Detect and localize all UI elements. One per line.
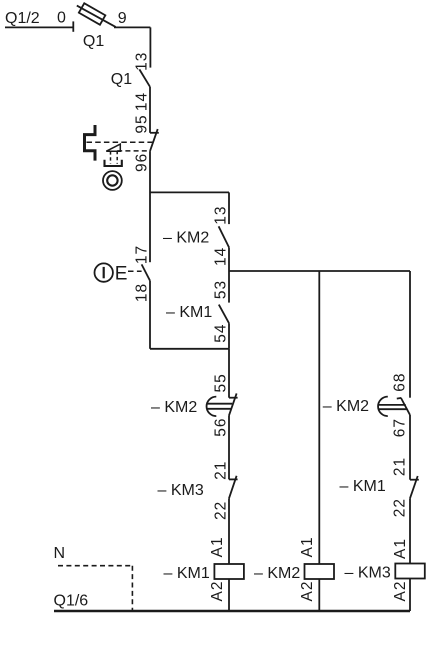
svg-text:95: 95	[134, 114, 151, 133]
svg-text:22: 22	[213, 501, 230, 520]
svg-text:13: 13	[213, 205, 230, 224]
svg-text:96: 96	[134, 153, 151, 172]
svg-text:Q1: Q1	[83, 33, 104, 50]
svg-text:18: 18	[134, 283, 151, 302]
svg-text:0: 0	[57, 9, 66, 26]
svg-text:E: E	[115, 263, 128, 284]
svg-text:53: 53	[213, 280, 230, 299]
svg-text:21: 21	[392, 457, 409, 476]
svg-text:– KM1: – KM1	[164, 565, 210, 582]
svg-text:55: 55	[213, 373, 230, 392]
svg-text:– KM1: – KM1	[166, 304, 212, 321]
svg-text:13: 13	[134, 52, 151, 71]
svg-text:Q1/2: Q1/2	[5, 10, 40, 27]
svg-text:14: 14	[134, 92, 151, 111]
svg-text:22: 22	[392, 498, 409, 517]
svg-text:68: 68	[392, 373, 409, 392]
svg-text:– KM1: – KM1	[340, 478, 386, 495]
svg-text:– KM2: – KM2	[323, 398, 369, 415]
svg-text:N: N	[54, 545, 66, 562]
svg-text:A2: A2	[209, 581, 226, 602]
svg-text:14: 14	[213, 247, 230, 266]
svg-text:17: 17	[134, 245, 151, 264]
svg-text:Q1/6: Q1/6	[54, 593, 89, 610]
svg-text:– KM3: – KM3	[158, 482, 204, 499]
svg-text:56: 56	[213, 417, 230, 436]
svg-text:A1: A1	[299, 536, 316, 557]
svg-text:67: 67	[392, 418, 409, 437]
svg-text:Q1: Q1	[111, 71, 132, 88]
svg-text:A2: A2	[299, 581, 316, 602]
svg-text:– KM3: – KM3	[345, 564, 391, 581]
svg-text:54: 54	[213, 324, 230, 343]
svg-text:A2: A2	[392, 581, 409, 602]
svg-text:A1: A1	[209, 536, 226, 557]
svg-text:9: 9	[118, 10, 127, 27]
svg-text:– KM2: – KM2	[163, 229, 209, 246]
svg-text:– KM2: – KM2	[254, 565, 300, 582]
svg-text:21: 21	[213, 461, 230, 480]
svg-text:– KM2: – KM2	[151, 399, 197, 416]
svg-text:A1: A1	[392, 538, 409, 559]
